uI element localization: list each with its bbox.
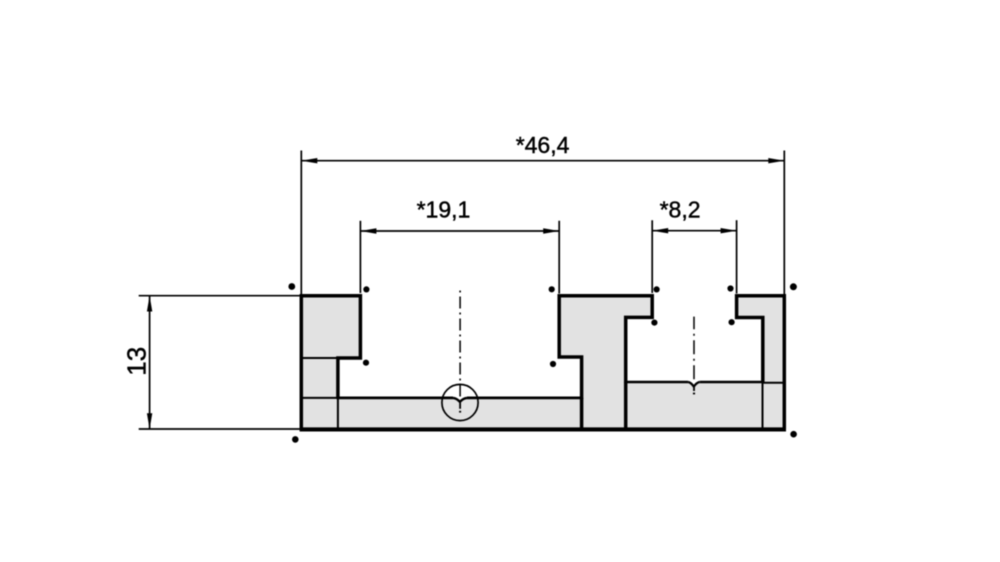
svg-text:13: 13 [122, 347, 152, 376]
svg-text:*8,2: *8,2 [660, 196, 701, 222]
svg-text:*19,1: *19,1 [417, 197, 471, 223]
svg-text:*46,4: *46,4 [516, 132, 570, 158]
